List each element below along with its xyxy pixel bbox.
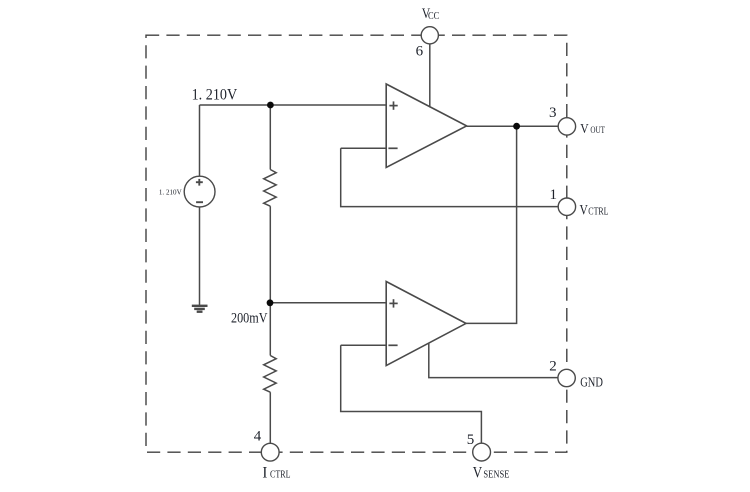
svg-text:CC: CC [428, 11, 439, 22]
svg-text:4: 4 [254, 429, 262, 445]
wire U2 feedback to pin 5 [341, 345, 482, 443]
resistor R2 top lead [269, 303, 271, 356]
label Vcc [422, 6, 440, 22]
op-amp U1 triangle [386, 84, 466, 167]
svg-text:1: 1 [550, 187, 558, 203]
label VOUT [580, 122, 605, 137]
wire voltage source top lead [199, 105, 201, 176]
op-amp U1 minus input symbol [388, 147, 397, 149]
pin 4 circle [261, 443, 279, 461]
op-amp U2 plus input symbol [389, 299, 397, 307]
svg-text:3: 3 [549, 105, 557, 121]
pin 5 circle [473, 443, 491, 461]
svg-text:OUT: OUT [590, 125, 605, 135]
voltage source plus sign [196, 179, 203, 186]
wire node 200mV horizontal [270, 302, 387, 304]
svg-text:6: 6 [416, 43, 424, 59]
resistor R2 zigzag [264, 356, 277, 393]
svg-text:200mV: 200mV [231, 311, 268, 327]
wire U2 inverting input [341, 344, 387, 346]
wire pin 6 VCC down to U1 [429, 44, 431, 108]
pin 6 circle [421, 27, 438, 44]
svg-text:GND: GND [580, 374, 603, 389]
wire U1 output to pin 3 [467, 125, 559, 127]
node junction 200mV [267, 299, 274, 306]
pin 2 circle [558, 369, 575, 386]
resistor R1 bottom lead [269, 206, 271, 303]
label VSENSE [473, 465, 510, 482]
resistor R1 top lead [269, 105, 271, 170]
node junction 1.210V [267, 102, 274, 109]
svg-text:1. 210V: 1. 210V [192, 86, 238, 103]
wire U2 ground lead to pin 2 [429, 344, 558, 378]
svg-text:SENSE: SENSE [483, 470, 509, 481]
svg-text:V: V [580, 122, 588, 137]
IC boundary dashed box [146, 35, 567, 452]
pin 3 circle [558, 118, 575, 135]
resistor R1 zigzag [264, 170, 277, 207]
ground [192, 306, 208, 312]
wire node 1.210V horizontal [200, 104, 387, 106]
node junction output [513, 123, 520, 130]
svg-text:1. 210V: 1. 210V [159, 187, 182, 196]
svg-text:I: I [262, 464, 267, 481]
op-amp U1 plus input symbol [389, 101, 397, 109]
svg-text:5: 5 [467, 432, 475, 448]
svg-text:V: V [473, 465, 483, 482]
op-amp U2 minus input symbol [388, 344, 397, 346]
svg-text:V: V [580, 203, 589, 219]
wire U1 inverting input [341, 147, 387, 149]
op-amp U2 triangle [386, 282, 466, 366]
pin 1 circle [558, 198, 575, 215]
wire voltage source bottom lead [199, 207, 201, 305]
voltage source minus sign [196, 201, 203, 203]
svg-text:CTRL: CTRL [270, 469, 291, 480]
resistor R2 bottom lead to pin 4 [269, 392, 271, 443]
label ICTRL [262, 464, 290, 481]
svg-text:CTRL: CTRL [588, 207, 608, 218]
wire output node down to U2 output [466, 126, 517, 323]
label VCTRL [580, 203, 609, 219]
wire U1 feedback to VCTRL line [341, 148, 558, 206]
svg-text:2: 2 [549, 359, 557, 375]
voltage source V1 circle [184, 176, 215, 207]
